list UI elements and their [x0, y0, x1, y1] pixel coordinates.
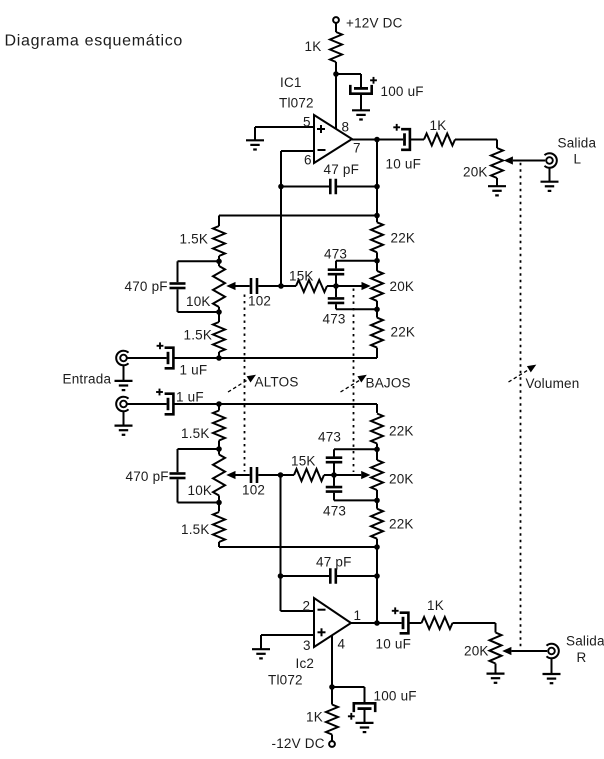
svg-text:47 pF: 47 pF [324, 162, 360, 177]
svg-text:10 uF: 10 uF [386, 157, 422, 172]
svg-text:473: 473 [318, 430, 341, 445]
svg-text:4: 4 [338, 637, 346, 652]
svg-text:Tl072: Tl072 [268, 673, 303, 688]
svg-text:Salida: Salida [558, 136, 597, 151]
svg-text:ALTOS: ALTOS [255, 375, 299, 390]
svg-text:1.5K: 1.5K [181, 426, 210, 441]
svg-text:15K: 15K [289, 269, 314, 284]
svg-text:22K: 22K [389, 424, 414, 439]
svg-text:1.5K: 1.5K [180, 232, 209, 247]
svg-text:1: 1 [354, 608, 362, 623]
svg-text:473: 473 [323, 312, 346, 327]
svg-text:20K: 20K [464, 644, 489, 659]
svg-text:473: 473 [324, 247, 347, 262]
svg-text:1.5K: 1.5K [184, 328, 213, 343]
svg-text:15K: 15K [291, 454, 316, 469]
svg-text:Diagrama esquemático: Diagrama esquemático [5, 33, 184, 50]
svg-text:7: 7 [353, 141, 361, 156]
svg-text:473: 473 [323, 504, 346, 519]
svg-text:L: L [574, 152, 582, 167]
svg-text:1K: 1K [305, 39, 322, 54]
svg-text:100 uF: 100 uF [374, 689, 417, 704]
svg-text:102: 102 [242, 483, 265, 498]
svg-text:10 uF: 10 uF [376, 637, 412, 652]
svg-text:6: 6 [304, 153, 312, 168]
svg-text:BAJOS: BAJOS [366, 376, 411, 391]
svg-text:20K: 20K [390, 279, 415, 294]
svg-text:5: 5 [303, 115, 311, 130]
svg-text:Ic2: Ic2 [296, 656, 315, 671]
svg-text:470 pF: 470 pF [126, 469, 169, 484]
svg-text:Salida: Salida [566, 634, 604, 649]
svg-text:R: R [577, 650, 587, 665]
svg-text:1K: 1K [306, 710, 323, 725]
svg-text:22K: 22K [389, 517, 414, 532]
svg-text:22K: 22K [391, 231, 416, 246]
svg-text:-12V DC: -12V DC [272, 736, 325, 751]
svg-text:10K: 10K [188, 483, 213, 498]
svg-text:Volumen: Volumen [526, 376, 580, 391]
svg-text:1 uF: 1 uF [176, 390, 204, 405]
svg-text:10K: 10K [186, 294, 211, 309]
svg-text:1K: 1K [430, 118, 447, 133]
svg-text:Tl072: Tl072 [279, 96, 314, 111]
svg-text:1 uF: 1 uF [180, 363, 208, 378]
svg-text:Entrada: Entrada [63, 372, 112, 387]
svg-text:IC1: IC1 [280, 75, 302, 90]
svg-text:2: 2 [303, 599, 311, 614]
svg-text:20K: 20K [463, 165, 488, 180]
svg-text:47 pF: 47 pF [316, 555, 352, 570]
svg-text:20K: 20K [389, 472, 414, 487]
svg-text:1K: 1K [427, 598, 444, 613]
svg-text:1.5K: 1.5K [181, 522, 210, 537]
svg-text:8: 8 [342, 120, 350, 135]
svg-text:102: 102 [248, 294, 271, 309]
svg-text:100 uF: 100 uF [381, 84, 424, 99]
svg-text:3: 3 [303, 638, 311, 653]
svg-text:+12V DC: +12V DC [346, 16, 403, 31]
svg-text:22K: 22K [391, 325, 416, 340]
svg-text:470 pF: 470 pF [125, 279, 168, 294]
